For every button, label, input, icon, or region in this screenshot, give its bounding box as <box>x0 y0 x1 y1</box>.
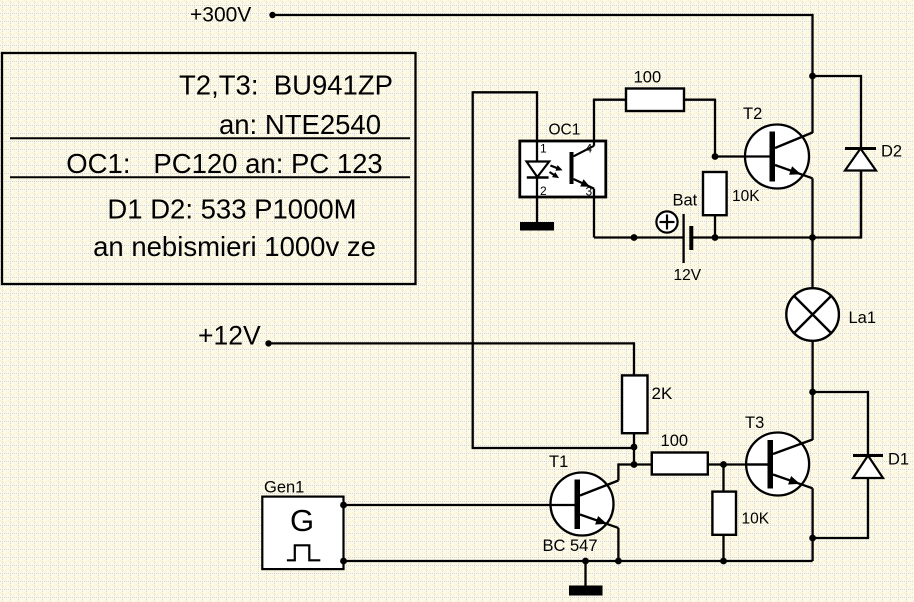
svg-text:BC 547: BC 547 <box>543 537 598 555</box>
wire D2 bottom corner <box>860 171 862 239</box>
svg-text:Bat: Bat <box>673 192 698 210</box>
wire down to T2 base junction <box>714 99 716 157</box>
transistor T2 <box>744 125 813 189</box>
battery plus sign circle <box>656 211 677 232</box>
generator Gen1 box <box>262 497 343 569</box>
diode D1 <box>853 456 883 539</box>
wire T1 collector to node <box>618 463 634 465</box>
battery Bat plates <box>684 214 692 263</box>
wire D1 bottom to emitter node <box>813 537 870 539</box>
svg-text:D1 D2: 533 P1000M: D1 D2: 533 P1000M <box>107 194 356 225</box>
svg-text:10K: 10K <box>742 511 770 528</box>
wire T3 emitter down <box>811 488 813 538</box>
wire +12V rail <box>269 342 635 344</box>
svg-text:T2,T3: BU941ZP: T2,T3: BU941ZP <box>179 70 393 101</box>
info box frame <box>2 53 416 284</box>
svg-text:10K: 10K <box>732 188 760 205</box>
wire T3 base <box>724 463 768 465</box>
node 10K bottom rail dot <box>720 558 727 565</box>
wire ground stub <box>584 561 586 586</box>
wire 10K top to battery rail <box>714 215 716 237</box>
svg-text:Gen1: Gen1 <box>264 479 304 497</box>
node junction dot D2 branch top <box>809 73 816 80</box>
svg-text:OC1: OC1 <box>549 122 581 139</box>
lamp La1 <box>786 288 839 341</box>
wire trunk top vertical to T2 collector <box>811 14 813 133</box>
wire battery rail right <box>691 236 861 238</box>
svg-text:2: 2 <box>540 184 547 198</box>
svg-text:La1: La1 <box>849 309 877 327</box>
resistor 100 (top) body <box>626 89 684 112</box>
diode D2 <box>845 149 876 238</box>
resistor 10K (bottom) body <box>712 492 736 535</box>
OC1 phototransistor collector line <box>574 146 595 157</box>
wire battery rail left <box>594 236 684 238</box>
resistor 2K body <box>622 375 648 433</box>
wire T1 emitter down to rail <box>617 528 619 561</box>
svg-text:100: 100 <box>661 432 689 450</box>
wire node down to base node <box>633 447 635 465</box>
svg-text:T2: T2 <box>743 105 762 123</box>
svg-text:T3: T3 <box>745 414 764 432</box>
wire OC1 pin2 to ground <box>536 178 538 223</box>
node T3 emitter junction dot <box>809 535 816 542</box>
wire emitter node down to bottom rail corner <box>811 538 813 561</box>
svg-text:+12V: +12V <box>198 321 261 351</box>
OC1 LED triangle <box>527 162 550 178</box>
wire OC1 pin1 loop: top horizontal <box>473 91 537 93</box>
node +300V terminal dot <box>269 12 275 18</box>
resistor 100 (bottom) body <box>652 453 708 475</box>
wire OC1 pin3 down to battery rail <box>593 189 595 238</box>
OC1 light arrow 2 <box>550 172 560 178</box>
node +12V terminal dot <box>265 340 271 346</box>
wire lamp bottom to D1 branch <box>811 342 813 393</box>
wire OC1 pin1 inner segment <box>536 141 538 162</box>
wire 2K bottom to node <box>633 433 635 447</box>
node T1 emitter rail dot <box>615 558 622 565</box>
wire D2 branch vertical down to cathode <box>860 75 862 149</box>
wire D1 branch horizontal <box>813 391 868 393</box>
wire T2 base <box>715 155 770 157</box>
OC1 light arrow 1 <box>550 165 562 171</box>
wire OC1 pin1 vertical <box>536 91 538 142</box>
node 2K bottom junction dot <box>631 444 638 451</box>
svg-text:+300V: +300V <box>190 4 251 27</box>
svg-text:1: 1 <box>540 142 547 156</box>
wire OC1 pin1 loop: left long vertical <box>472 91 474 448</box>
ground symbol at OC1 LED <box>520 222 554 231</box>
svg-text:D2: D2 <box>881 143 902 161</box>
svg-text:OC1: PC120 an: PC 123: OC1: PC120 an: PC 123 <box>66 148 382 179</box>
wire D1 branch vertical to cathode <box>867 391 869 456</box>
wire Gen1 to T1 base <box>344 504 575 506</box>
wire T3 base node down to 10K <box>722 465 724 492</box>
svg-text:2K: 2K <box>652 384 673 403</box>
wire D2 branch horizontal <box>813 75 862 77</box>
svg-text:T1: T1 <box>549 453 568 471</box>
transistor T3 <box>745 433 813 496</box>
wire resistor 100 bottom right to T3 base node <box>708 463 724 465</box>
node T1 collector junction dot <box>631 461 638 468</box>
OC1 LED cathode bar <box>527 176 549 178</box>
resistor 10K (top) body <box>703 172 727 215</box>
wire OC1 pin1 loop: bottom horizontal to 2K node <box>472 447 634 449</box>
node T2 base junction dot <box>712 153 719 160</box>
wire resistor 100 top right to T2 base node <box>684 99 715 101</box>
svg-text:an: NTE2540: an: NTE2540 <box>219 109 381 140</box>
node T3 base junction dot <box>720 461 727 468</box>
svg-text:an nebismieri 1000v ze: an nebismieri 1000v ze <box>93 231 376 262</box>
svg-text:D1: D1 <box>888 451 909 469</box>
transistor T1 <box>549 473 618 536</box>
node battery rail dot left <box>631 234 638 241</box>
wire +12V down to 2K <box>633 342 635 375</box>
info box rule 1 <box>10 137 410 139</box>
wire trunk to T3 collector <box>811 392 813 440</box>
node D1 branch junction dot <box>809 389 816 396</box>
node Gen1 output terminal dot <box>340 502 347 509</box>
wire bottom rail <box>344 560 813 562</box>
OC1 phototransistor emitter line with arrow <box>574 179 595 189</box>
wire trunk to lamp <box>811 238 813 289</box>
node ground rail dot <box>582 558 589 565</box>
OC1 phototransistor base bar <box>570 152 574 184</box>
wire 10K bottom to rail <box>722 535 724 561</box>
wire +300V rail top <box>273 14 813 16</box>
svg-text:G: G <box>290 503 314 538</box>
node battery rail dot 10K <box>712 234 719 241</box>
node Gen1 ground terminal dot <box>340 558 347 565</box>
wire node to resistor 100 bottom <box>634 463 652 465</box>
node battery rail dot trunk <box>809 234 816 241</box>
wire T1 collector up <box>617 463 619 480</box>
ground symbol main <box>569 586 603 596</box>
wire pin4 to resistor 100 top <box>593 99 626 101</box>
info box rule 2 <box>10 176 410 178</box>
svg-text:100: 100 <box>634 69 662 87</box>
wire OC1 pin4 up <box>593 100 595 146</box>
optocoupler OC1 box <box>520 141 606 197</box>
wire T2 emitter down <box>811 178 813 237</box>
svg-text:12V: 12V <box>674 267 702 284</box>
